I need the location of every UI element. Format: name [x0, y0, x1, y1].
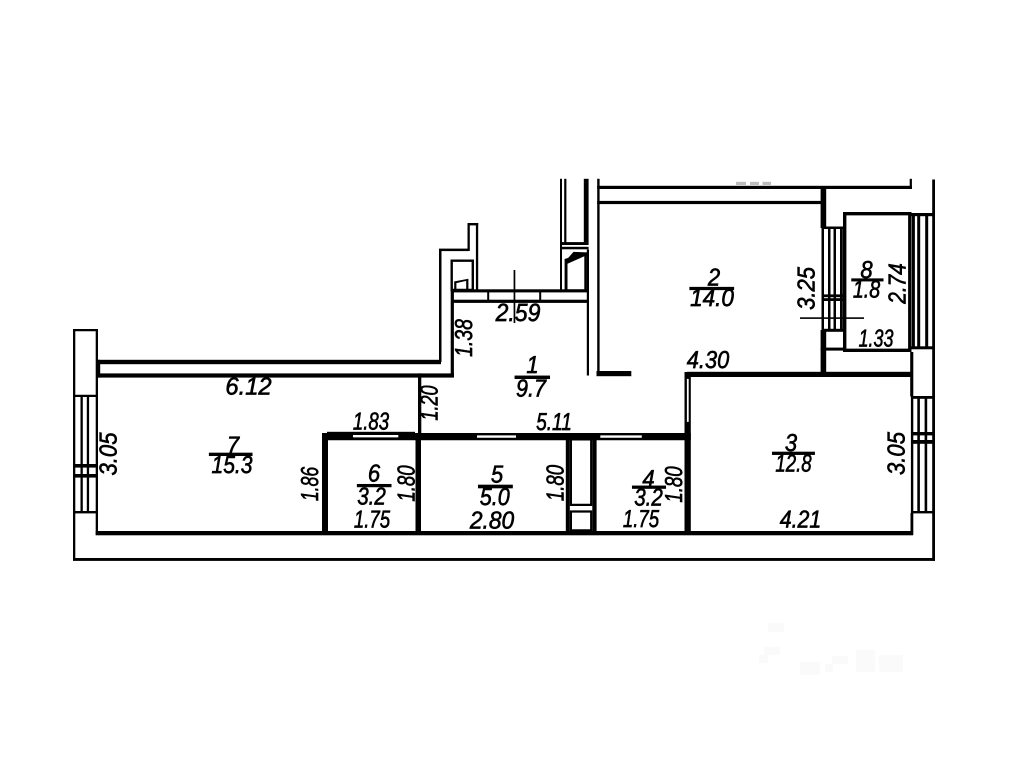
window room2-loggia line a — [822, 227, 825, 331]
wall outer left below window — [73, 513, 75, 561]
underline room6 — [357, 484, 391, 487]
label 4.30 — [687, 347, 730, 374]
dim line 2.59 vertical — [514, 270, 516, 323]
label room6 area 3.2 — [357, 484, 386, 511]
window left divider bar upper — [73, 464, 98, 468]
svg-text:1.80: 1.80 — [543, 465, 570, 502]
underline room3 — [772, 452, 814, 455]
svg-text:2.80: 2.80 — [469, 508, 515, 535]
label 1.20 rotated — [417, 385, 444, 421]
window room3 right divider lower — [911, 440, 935, 444]
svg-text:4.30: 4.30 — [687, 347, 730, 374]
wall stairwell thick bar — [584, 179, 589, 243]
label 1.80 room5 rotated — [543, 465, 570, 502]
wall bottom interior — [96, 531, 913, 535]
window room3 right divider upper — [911, 432, 935, 435]
label room8 number — [860, 257, 873, 284]
label room7 number — [227, 433, 241, 460]
shaft box in vestibule — [451, 260, 475, 292]
svg-text:15.3: 15.3 — [211, 452, 252, 479]
window loggia right line c — [925, 216, 928, 348]
label room2 number — [707, 265, 721, 292]
wall shaft right — [592, 439, 596, 532]
wall 6.12 lower line — [96, 373, 454, 377]
wall right outer — [932, 180, 935, 561]
svg-text:4.21: 4.21 — [780, 507, 821, 534]
tick dim 2.59 right — [539, 292, 541, 300]
wall room2 right upper part — [821, 189, 827, 228]
label 1.80 room6 rotated — [394, 465, 421, 502]
wall room2 top inner line — [597, 201, 822, 204]
svg-text:1.80: 1.80 — [394, 465, 421, 502]
window room2-loggia divider upper — [822, 294, 844, 297]
label 6.12 — [225, 374, 272, 401]
shaft box lower — [570, 510, 593, 531]
wall vestibule bottom upper line — [453, 289, 589, 292]
label room5 area 5.0 — [480, 484, 510, 511]
window room2-loggia line c — [834, 227, 837, 331]
underline room2 — [690, 287, 734, 290]
window loggia right line b — [917, 216, 920, 348]
underline room8 — [852, 279, 884, 281]
svg-text:1.80: 1.80 — [661, 466, 688, 503]
svg-text:2.74: 2.74 — [884, 263, 911, 304]
label room5 number — [491, 461, 504, 488]
window loggia right bottom bar — [912, 346, 934, 349]
label 3.25 rotated — [794, 267, 821, 310]
label room4 number — [642, 466, 654, 493]
label room6 1.75 — [354, 507, 391, 534]
door leaf fold wedge — [566, 252, 587, 261]
svg-text:1.20: 1.20 — [417, 385, 444, 421]
wall room2 bottom segment — [597, 371, 632, 376]
label room3 number — [785, 430, 798, 457]
window left wall line d — [96, 397, 98, 513]
window room3 right line a — [911, 396, 913, 513]
label 1.33 — [859, 326, 894, 353]
tick dim 2.59 left — [487, 292, 489, 300]
wall vestibule top-left horizontal — [439, 249, 468, 252]
wall 6.12 upper line — [96, 360, 441, 364]
window left divider bar lower — [73, 474, 98, 478]
label 1.83 — [353, 409, 390, 436]
stairwell door leaf — [565, 252, 587, 292]
stairwell threshold bar upper — [562, 242, 589, 245]
wall room6 left — [322, 433, 328, 535]
label room7 area 15.3 — [211, 452, 252, 479]
label room5 2.80 — [469, 508, 515, 535]
wall left jamb at x97 — [96, 360, 100, 378]
svg-text:1.38: 1.38 — [451, 319, 478, 357]
underline room1 — [515, 376, 550, 379]
window left wall (3.05) line a — [73, 397, 75, 513]
label room2 area 14.0 — [690, 285, 734, 312]
label 5.11 — [536, 409, 572, 436]
pier chimney right line — [476, 223, 478, 292]
window loggia right line a — [912, 216, 915, 348]
window room2-loggia top bar — [822, 227, 844, 230]
stairwell threshold bar lower — [562, 247, 589, 250]
svg-text:3.25: 3.25 — [794, 267, 821, 310]
window room3 right top bar — [911, 396, 935, 399]
wall top outer right cap — [910, 179, 912, 189]
svg-text:1.75: 1.75 — [354, 507, 391, 534]
window left bottom sill — [73, 511, 98, 513]
label 1.38 rotated — [451, 319, 478, 357]
label 3.05 left rotated — [96, 432, 123, 475]
wall left pier box top-left — [73, 329, 98, 397]
window room3 right bottom sill — [911, 511, 935, 513]
wall room2 left — [597, 179, 599, 376]
wall room2 right lower part — [821, 330, 827, 376]
wall room5-shaft — [566, 439, 570, 532]
svg-text:1.83: 1.83 — [353, 409, 390, 436]
faint watermark smudges bottom right — [759, 623, 903, 675]
svg-text:9.7: 9.7 — [516, 376, 547, 403]
window room2-loggia divider lower — [822, 298, 844, 301]
window room2-loggia line b — [828, 227, 831, 331]
svg-text:1.8: 1.8 — [853, 277, 881, 304]
svg-text:5.11: 5.11 — [536, 409, 572, 436]
svg-text:3.05: 3.05 — [884, 432, 911, 475]
window loggia right top bar — [912, 213, 934, 216]
pier chimney top line — [468, 223, 479, 225]
label room6 number — [368, 461, 381, 488]
label room4 area 3.2 — [634, 485, 663, 512]
pier chimney left line — [468, 223, 470, 251]
label 2.74 rotated — [884, 263, 911, 304]
wall vestibule bottom lower line (room1 top) — [451, 300, 588, 303]
underline room5 — [478, 485, 512, 488]
window room2-loggia bottom bar — [822, 329, 844, 332]
wall 1.83+5.11 with door slits — [322, 433, 691, 440]
svg-text:12.8: 12.8 — [775, 451, 812, 478]
underline room7 — [209, 453, 252, 456]
label 4.21 — [780, 507, 821, 534]
shaft inner quad — [454, 279, 468, 290]
window room3 right line b — [917, 396, 920, 513]
dim line 1.83 — [327, 432, 415, 434]
label room8 area 1.8 — [853, 277, 881, 304]
window left wall line c — [87, 397, 89, 513]
label 1.86 rotated — [297, 467, 324, 502]
label 1.80 room4 rotated — [661, 466, 688, 503]
wall step 1.20 vertical — [418, 373, 421, 439]
loggia room8 box — [843, 212, 912, 352]
window left wall line b — [81, 397, 83, 513]
wall room3 left with door slit — [685, 372, 691, 535]
label 2.59 — [495, 299, 541, 327]
wall room3 top (4.30) — [687, 372, 912, 377]
wall room1 left (1.38) — [451, 291, 454, 378]
label room3 area 12.8 — [775, 451, 812, 478]
svg-text:2.59: 2.59 — [495, 299, 541, 327]
svg-text:1.86: 1.86 — [297, 467, 324, 502]
wall top outer line — [597, 186, 912, 189]
svg-text:6.12: 6.12 — [225, 374, 272, 401]
wall vestibule left vertical — [439, 249, 442, 362]
sill line below window — [821, 348, 843, 351]
underline room4 — [632, 486, 665, 489]
shaft box upper — [570, 438, 593, 506]
svg-text:1.33: 1.33 — [859, 326, 894, 353]
label room1 number — [526, 352, 538, 379]
label room1 area 9.7 — [516, 376, 547, 403]
wall right corner piece bottom — [911, 513, 914, 535]
wall inner corner left-bottom — [96, 513, 98, 535]
faint erased marks top — [736, 182, 771, 185]
wall stairwell thin second — [564, 179, 566, 244]
wall line below stairwell — [587, 250, 589, 376]
wall room6 right — [416, 433, 422, 535]
wall stairwell thin left — [560, 179, 562, 292]
window room2-loggia line d — [840, 227, 843, 331]
dim leader line room8 — [800, 317, 864, 319]
label 3.05 right rotated — [884, 432, 911, 475]
svg-text:14.0: 14.0 — [690, 285, 734, 312]
wall bottom outer — [73, 558, 935, 561]
window room3 right line c — [925, 396, 928, 513]
label room4 1.75 — [623, 506, 660, 533]
svg-text:1.75: 1.75 — [623, 506, 660, 533]
wall right notch below loggia — [910, 352, 913, 397]
svg-text:3.05: 3.05 — [96, 432, 123, 475]
